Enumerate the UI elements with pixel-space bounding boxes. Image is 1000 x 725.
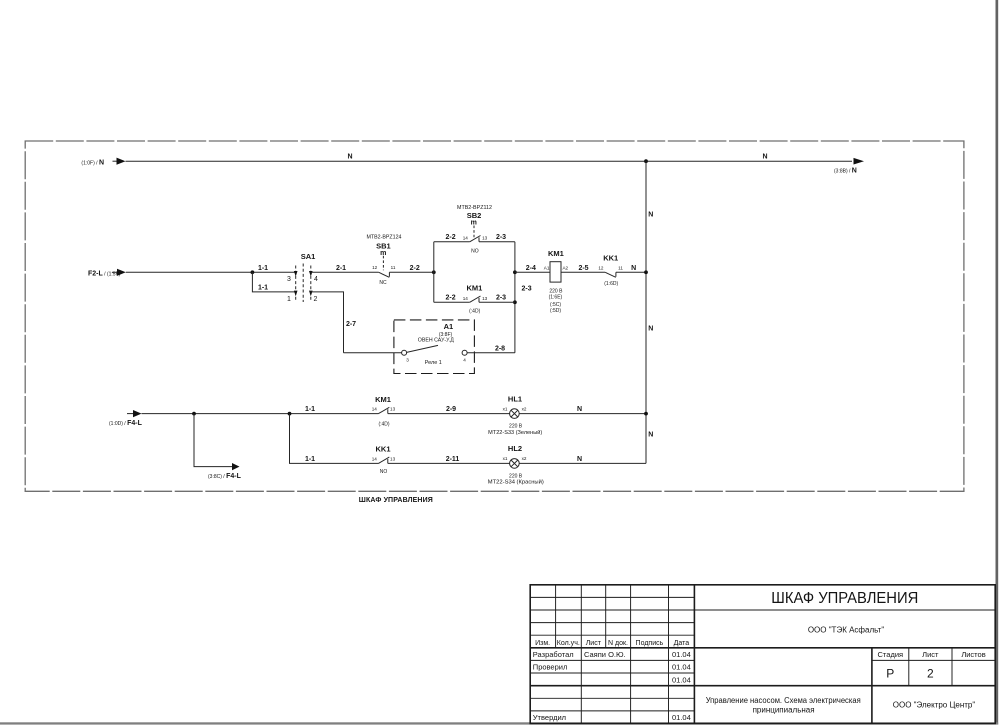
svg-text:SA1: SA1 bbox=[301, 252, 316, 261]
svg-text:KM1: KM1 bbox=[548, 249, 564, 258]
svg-text:01.04: 01.04 bbox=[672, 650, 691, 659]
svg-text:14: 14 bbox=[463, 235, 469, 240]
svg-text:Р: Р bbox=[886, 666, 894, 680]
svg-text:13: 13 bbox=[482, 235, 488, 240]
svg-text:x1: x1 bbox=[503, 406, 508, 411]
svg-text:N: N bbox=[762, 154, 767, 161]
svg-text:Управление насосом. Схема элек: Управление насосом. Схема электрическая bbox=[706, 696, 861, 705]
svg-text:(:4D): (:4D) bbox=[469, 309, 480, 315]
svg-text:13: 13 bbox=[390, 407, 396, 412]
svg-text:F2-L / (1:5F): F2-L / (1:5F) bbox=[88, 270, 121, 277]
svg-text:HL2: HL2 bbox=[508, 444, 522, 453]
svg-text:МТ22-S33 (Зеленый): МТ22-S33 (Зеленый) bbox=[488, 429, 542, 436]
svg-text:Саяпи О.Ю.: Саяпи О.Ю. bbox=[584, 650, 626, 659]
svg-text:ШКАФ УПРАВЛЕНИЯ: ШКАФ УПРАВЛЕНИЯ bbox=[359, 497, 433, 504]
svg-text:12: 12 bbox=[598, 265, 604, 270]
svg-text:ООО "Электро Центр": ООО "Электро Центр" bbox=[893, 701, 976, 710]
svg-text:11: 11 bbox=[618, 265, 623, 270]
svg-text:2-1: 2-1 bbox=[336, 265, 346, 272]
svg-text:N: N bbox=[648, 211, 653, 218]
svg-text:Проверил: Проверил bbox=[533, 663, 568, 672]
svg-text:2-8: 2-8 bbox=[495, 345, 505, 352]
svg-text:1-1: 1-1 bbox=[258, 284, 268, 291]
svg-text:(:5C): (:5C) bbox=[550, 302, 561, 308]
svg-text:N: N bbox=[577, 406, 582, 413]
svg-text:Стадия: Стадия bbox=[878, 650, 904, 659]
svg-text:13: 13 bbox=[482, 296, 488, 301]
svg-text:KK1: KK1 bbox=[375, 445, 390, 454]
svg-text:14: 14 bbox=[372, 407, 378, 412]
svg-text:Листов: Листов bbox=[961, 650, 985, 659]
svg-text:(:5D): (:5D) bbox=[550, 308, 561, 314]
svg-text:220 В: 220 В bbox=[509, 473, 523, 479]
svg-text:2-3: 2-3 bbox=[496, 234, 506, 241]
svg-text:(1:6E): (1:6E) bbox=[549, 295, 563, 301]
svg-text:01.04: 01.04 bbox=[672, 675, 691, 684]
svg-text:2-3: 2-3 bbox=[496, 295, 506, 302]
svg-text:KM1: KM1 bbox=[466, 284, 482, 293]
svg-text:(3:8B) / N: (3:8B) / N bbox=[834, 167, 857, 174]
svg-text:MTB2-BPZ124: MTB2-BPZ124 bbox=[367, 235, 402, 241]
svg-text:A1: A1 bbox=[444, 322, 454, 331]
svg-text:N: N bbox=[631, 265, 636, 272]
svg-text:Лист: Лист bbox=[922, 650, 939, 659]
svg-text:2-2: 2-2 bbox=[410, 265, 420, 272]
svg-text:N: N bbox=[648, 431, 653, 438]
svg-text:2-4: 2-4 bbox=[526, 265, 536, 272]
svg-text:ШКАФ УПРАВЛЕНИЯ: ШКАФ УПРАВЛЕНИЯ bbox=[771, 590, 918, 607]
svg-text:1-1: 1-1 bbox=[305, 456, 315, 463]
svg-text:(3:8C) / F4-L: (3:8C) / F4-L bbox=[208, 473, 242, 480]
svg-text:KM1: KM1 bbox=[375, 395, 391, 404]
svg-text:Кол.уч.: Кол.уч. bbox=[557, 640, 580, 647]
svg-text:1-1: 1-1 bbox=[305, 406, 315, 413]
svg-text:ООО "ТЭК Асфальт": ООО "ТЭК Асфальт" bbox=[808, 626, 884, 635]
svg-text:принципиальная: принципиальная bbox=[753, 705, 815, 714]
svg-text:N: N bbox=[577, 456, 582, 463]
svg-text:12: 12 bbox=[372, 265, 378, 270]
svg-text:2-2: 2-2 bbox=[446, 295, 456, 302]
svg-text:(1:6D): (1:6D) bbox=[604, 281, 618, 287]
svg-text:МТ22-S34 (Красный): МТ22-S34 (Красный) bbox=[488, 479, 544, 486]
svg-text:Разработал: Разработал bbox=[533, 650, 574, 659]
svg-text:(1:0F) / N: (1:0F) / N bbox=[81, 160, 104, 167]
svg-text:ОВЕН САУ-У.Д: ОВЕН САУ-У.Д bbox=[418, 337, 455, 343]
svg-text:Утвердил: Утвердил bbox=[533, 713, 566, 722]
svg-text:2-9: 2-9 bbox=[446, 406, 456, 413]
svg-text:2-7: 2-7 bbox=[346, 321, 356, 328]
svg-text:x2: x2 bbox=[522, 456, 527, 461]
svg-text:N: N bbox=[347, 154, 352, 161]
svg-text:A1: A1 bbox=[544, 265, 550, 270]
svg-text:14: 14 bbox=[372, 456, 378, 461]
svg-text:Лист: Лист bbox=[586, 640, 602, 647]
svg-text:2-5: 2-5 bbox=[578, 265, 588, 272]
svg-text:13: 13 bbox=[390, 456, 396, 461]
svg-text:(:4D): (:4D) bbox=[378, 422, 389, 428]
svg-text:Изм.: Изм. bbox=[535, 640, 550, 647]
svg-text:N док.: N док. bbox=[608, 640, 628, 647]
svg-text:Подпись: Подпись bbox=[636, 640, 664, 647]
svg-text:2-2: 2-2 bbox=[446, 234, 456, 241]
svg-text:NC: NC bbox=[379, 280, 387, 286]
svg-text:3: 3 bbox=[406, 357, 409, 362]
svg-text:HL1: HL1 bbox=[508, 394, 522, 403]
svg-text:Дата: Дата bbox=[674, 640, 690, 647]
svg-text:4: 4 bbox=[463, 357, 466, 362]
svg-text:SB2: SB2 bbox=[467, 211, 482, 220]
svg-text:x2: x2 bbox=[522, 406, 527, 411]
svg-text:2: 2 bbox=[927, 666, 934, 680]
svg-text:NO: NO bbox=[380, 469, 388, 475]
svg-text:KK1: KK1 bbox=[603, 253, 618, 262]
svg-text:2-3: 2-3 bbox=[522, 286, 532, 293]
svg-text:2-11: 2-11 bbox=[446, 456, 460, 463]
svg-text:1: 1 bbox=[287, 296, 291, 303]
svg-text:(1:0D) / F4-L: (1:0D) / F4-L bbox=[109, 420, 143, 427]
svg-text:A2: A2 bbox=[562, 265, 568, 270]
svg-text:Реле 1: Реле 1 bbox=[425, 360, 442, 366]
svg-text:4: 4 bbox=[314, 276, 318, 283]
svg-text:01.04: 01.04 bbox=[672, 713, 691, 722]
svg-text:3: 3 bbox=[287, 276, 291, 283]
svg-text:NO: NO bbox=[471, 248, 479, 254]
svg-text:220 В: 220 В bbox=[549, 288, 563, 294]
svg-text:N: N bbox=[648, 325, 653, 332]
svg-text:1-1: 1-1 bbox=[258, 265, 268, 272]
svg-text:11: 11 bbox=[391, 265, 396, 270]
svg-text:01.04: 01.04 bbox=[672, 663, 691, 672]
svg-text:14: 14 bbox=[463, 296, 469, 301]
svg-text:220 В: 220 В bbox=[509, 424, 523, 430]
svg-text:2: 2 bbox=[314, 296, 318, 303]
svg-text:x1: x1 bbox=[503, 456, 508, 461]
